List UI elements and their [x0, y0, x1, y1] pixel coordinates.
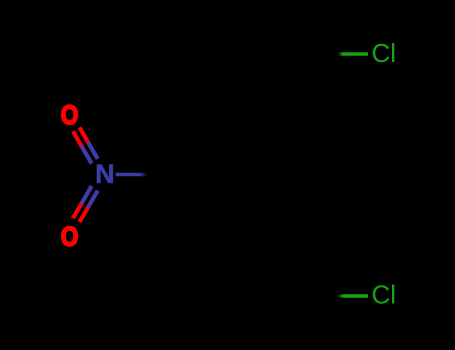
nitro N=O top double bond line inner — [80, 127, 98, 158]
svg-text:O: O — [61, 222, 79, 252]
wire CH2-Cl top bond (green half) — [315, 52, 368, 55]
wire N-C1 bond (blue half) — [116, 173, 177, 176]
svg-text:Cl: Cl — [372, 38, 397, 68]
nitro N=O bottom double bond line outer — [73, 186, 92, 218]
nitro N=O top double bond line outer — [73, 131, 92, 163]
svg-text:O: O — [61, 100, 79, 130]
svg-text:Cl: Cl — [372, 280, 397, 310]
wire CH2-Cl bottom bond (green half) — [315, 294, 368, 297]
svg-text:N: N — [95, 159, 115, 189]
nitro N=O bottom double bond line inner — [80, 191, 98, 223]
